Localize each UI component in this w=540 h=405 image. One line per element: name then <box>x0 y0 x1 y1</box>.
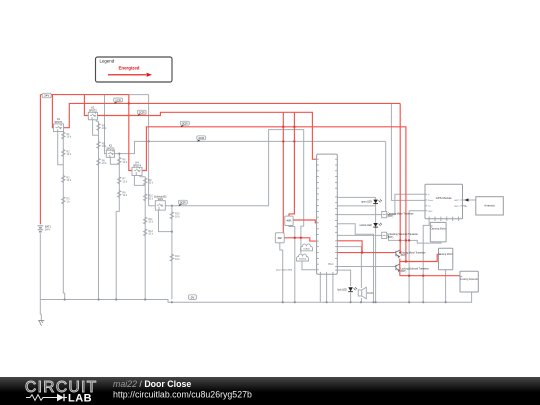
logo diode <box>47 397 57 399</box>
svg-text:10 k: 10 k <box>175 216 180 219</box>
logo resistor <box>26 395 47 401</box>
wire chain E <box>159 206 172 300</box>
svg-text:Closing Motor: Closing Motor <box>439 253 453 256</box>
wire IC bottom pins <box>320 274 333 302</box>
GPS module U2 <box>425 184 463 219</box>
opening motor M1 <box>430 222 446 242</box>
LED D2 unlock <box>360 223 382 227</box>
svg-text:10 k: 10 k <box>148 221 153 224</box>
transistor Q1 <box>395 250 400 257</box>
svg-text:10 k: 10 k <box>123 194 128 197</box>
wire IC to unlock LED <box>337 224 373 302</box>
bell Ext <box>297 254 309 261</box>
svg-text:Antenna: Antenna <box>484 204 495 208</box>
svg-text:(BJT): (BJT) <box>401 271 407 273</box>
battery BT1 <box>38 226 44 232</box>
relay K3 <box>106 150 114 157</box>
wire chain A relay1 bottom <box>58 132 65 300</box>
svg-text:(BJT): (BJT) <box>401 255 407 257</box>
wire IC to driver U4 <box>337 235 441 243</box>
svg-text:(BJT): (BJT) <box>388 237 394 239</box>
svg-text:24V: 24V <box>44 94 49 98</box>
svg-text:PLC: PLC <box>328 262 333 266</box>
svg-text:SPDT4: SPDT4 <box>133 165 142 168</box>
resistor R14 <box>170 254 173 261</box>
svg-text:4CR: 4CR <box>198 136 204 140</box>
svg-text:1CR: 1CR <box>115 98 121 102</box>
svg-text:SPDT1: SPDT1 <box>54 121 63 124</box>
legend box <box>96 57 173 82</box>
locking solenoid L1 <box>460 271 478 292</box>
transistor Q2 <box>395 264 400 271</box>
wire Q1 out <box>399 259 401 276</box>
svg-text:5CR: 5CR <box>180 201 186 205</box>
wire locking solenoid feed <box>400 275 460 277</box>
svg-text:IntBell: IntBell <box>303 247 310 250</box>
svg-text:10 k: 10 k <box>123 161 128 164</box>
svg-text:lock LED: lock LED <box>337 288 347 291</box>
LED D1 open <box>361 199 382 203</box>
relay K4 <box>132 167 142 175</box>
svg-text:Locking Solenoid: Locking Solenoid <box>460 279 478 281</box>
svg-text:Horn: Horn <box>287 220 293 223</box>
svg-text:SPDT2: SPDT2 <box>89 110 98 113</box>
wire IC to buzzer <box>337 247 361 303</box>
wire relay1 out net2 <box>64 103 401 127</box>
svg-text:ant: ant <box>465 205 468 208</box>
node flag net2 <box>114 98 123 103</box>
wire ground rail <box>40 292 471 302</box>
svg-text:BUZ1: BUZ1 <box>367 292 374 295</box>
resistor R1b <box>62 150 65 157</box>
junction dots <box>128 102 425 277</box>
svg-text:10 k: 10 k <box>67 153 72 156</box>
footer bar <box>0 377 540 405</box>
wire box1 feed <box>289 112 294 216</box>
box Mic <box>275 233 284 243</box>
wire box1 out to IC <box>293 220 317 223</box>
resistor R4 <box>97 124 100 131</box>
svg-text:(BJT): (BJT) <box>388 216 394 218</box>
wire IC to opening motor <box>337 241 362 253</box>
wire battery top <box>39 95 41 225</box>
node flag net5 <box>197 136 206 142</box>
horn B1 <box>285 216 293 226</box>
node flag +24V <box>42 93 51 98</box>
wire relay2 to relay3 feed <box>105 95 107 154</box>
wire relay1 left feed <box>52 95 53 128</box>
svg-text:GND: GND <box>428 211 433 213</box>
wire closing motor gnd <box>445 270 447 303</box>
svg-text:mai22 / Door Close: mai22 / Door Close <box>113 379 191 389</box>
svg-text:10 k: 10 k <box>123 180 128 183</box>
wire IC to transistor Q1 <box>337 252 394 254</box>
resistor R5 <box>97 159 100 166</box>
wire chain B relay2 bottom <box>93 120 99 300</box>
node flag net6 <box>178 200 187 206</box>
svg-text:10 k: 10 k <box>67 179 72 182</box>
driver U4 <box>382 232 387 238</box>
speaker SP1 <box>358 287 366 299</box>
svg-text:Opening Motor: Opening Motor <box>431 228 446 231</box>
svg-text:SW1: SW1 <box>158 198 164 201</box>
svg-text:ExtBell: ExtBell <box>299 258 306 261</box>
wire horn feed <box>282 112 284 233</box>
wire box1 bottom <box>289 226 295 303</box>
svg-text:10 k: 10 k <box>102 145 107 148</box>
svg-text:10 k: 10 k <box>67 136 72 139</box>
relay K2 <box>88 112 97 120</box>
svg-text:open LED: open LED <box>361 201 372 204</box>
ground <box>38 321 44 326</box>
wire chain D relay4 bottom <box>134 176 145 300</box>
LED D3 lock <box>337 287 357 291</box>
wire relay2 out net3 <box>97 112 316 159</box>
svg-text:http://circuitlab.com/cu8u26ry: http://circuitlab.com/cu8u26ryg527b <box>113 390 252 400</box>
svg-text:GPS Module: GPS Module <box>436 196 452 200</box>
svg-text:ANT2: ANT2 <box>454 205 460 208</box>
resistor R9 <box>144 178 147 185</box>
wire GPS gnd <box>423 219 429 303</box>
resistor R1 <box>62 132 65 139</box>
antenna arrow <box>465 198 469 201</box>
resistor R10 <box>144 194 147 201</box>
svg-text:Energized: Energized <box>119 65 140 70</box>
resistor R12 <box>144 229 147 236</box>
wire GPS bottom stubs <box>435 219 459 221</box>
relay K1 <box>54 124 64 132</box>
wire box2 bottom <box>280 243 283 302</box>
wire box2 out to IC <box>284 238 316 241</box>
svg-text:Unlocking Solenoid Transistor: Unlocking Solenoid Transistor <box>388 233 419 236</box>
resistor R13 <box>170 212 173 219</box>
wire IC to transistor Q2 <box>337 266 394 268</box>
svg-text:10 k: 10 k <box>148 233 153 236</box>
resistor R7 <box>118 177 121 184</box>
wire +24V rail <box>40 94 128 96</box>
solenoid S1 <box>155 201 165 210</box>
wire chain C relay3 bottom <box>110 154 119 300</box>
svg-text:unlock LED: unlock LED <box>360 224 372 227</box>
svg-text:Opening Motor Transistor: Opening Motor Transistor <box>388 212 414 215</box>
wire relay4 out net4 <box>142 127 406 262</box>
closing motor M2 <box>439 248 453 270</box>
resistor R4b <box>97 142 100 149</box>
wire relay4 left feed <box>129 95 132 171</box>
svg-text:Door Chime Bell: Door Chime Bell <box>276 269 292 272</box>
wire top rail gray part <box>129 95 149 206</box>
node flag gnd rail <box>189 295 197 300</box>
wire battery bottom <box>40 233 41 320</box>
svg-text:Closing Motor Transistor: Closing Motor Transistor <box>401 251 426 254</box>
svg-text:3CR: 3CR <box>182 122 188 126</box>
resistor R3 <box>62 197 65 204</box>
svg-text:10 k: 10 k <box>102 127 107 130</box>
wire driver to GPS top <box>385 141 387 212</box>
svg-text:10 k: 10 k <box>102 162 107 165</box>
wire closing motor feed <box>400 254 439 261</box>
svg-text:24 V: 24 V <box>45 228 50 231</box>
wire solenoid row <box>149 130 304 254</box>
svg-text:SPDT3: SPDT3 <box>106 148 115 151</box>
resistor R8 <box>118 191 121 198</box>
resistor R11 <box>144 217 147 224</box>
svg-text:10 k: 10 k <box>175 258 180 261</box>
svg-text:In: In <box>428 194 430 196</box>
wire IC LED return <box>337 205 375 207</box>
wire relay2 left feed <box>84 95 88 116</box>
svg-text:Reset: Reset <box>428 199 434 202</box>
wire IC to driver U3 <box>337 194 425 214</box>
svg-text:LAB: LAB <box>68 393 92 405</box>
wire antenna to GPS <box>463 200 476 206</box>
wire net to GPS RX <box>391 103 425 200</box>
antenna box <box>476 197 504 215</box>
wire bell to IC <box>302 262 317 270</box>
bell Int <box>301 244 313 251</box>
svg-text:2CR: 2CR <box>139 111 145 115</box>
node flag net4 <box>180 121 189 127</box>
svg-text:Locking Solenoid Transistor: Locking Solenoid Transistor <box>401 267 429 270</box>
wire IC to open LED <box>337 197 375 302</box>
resistor R6 <box>118 158 121 165</box>
driver U3 <box>382 211 387 217</box>
svg-text:Legend: Legend <box>100 59 115 64</box>
IC U1 <box>317 154 338 274</box>
svg-text:0V: 0V <box>191 295 195 299</box>
svg-text:ANT1: ANT1 <box>454 199 460 202</box>
node flag net3 <box>137 110 146 115</box>
wire net2 drop <box>399 103 401 252</box>
wire GPS pin4 <box>409 211 425 302</box>
wire relay3 right to long net <box>115 141 386 153</box>
wire IC to lock LED <box>337 270 350 302</box>
svg-text:1 k: 1 k <box>67 201 71 204</box>
resistor R2 <box>62 176 65 183</box>
svg-text:10 k: 10 k <box>148 182 153 185</box>
